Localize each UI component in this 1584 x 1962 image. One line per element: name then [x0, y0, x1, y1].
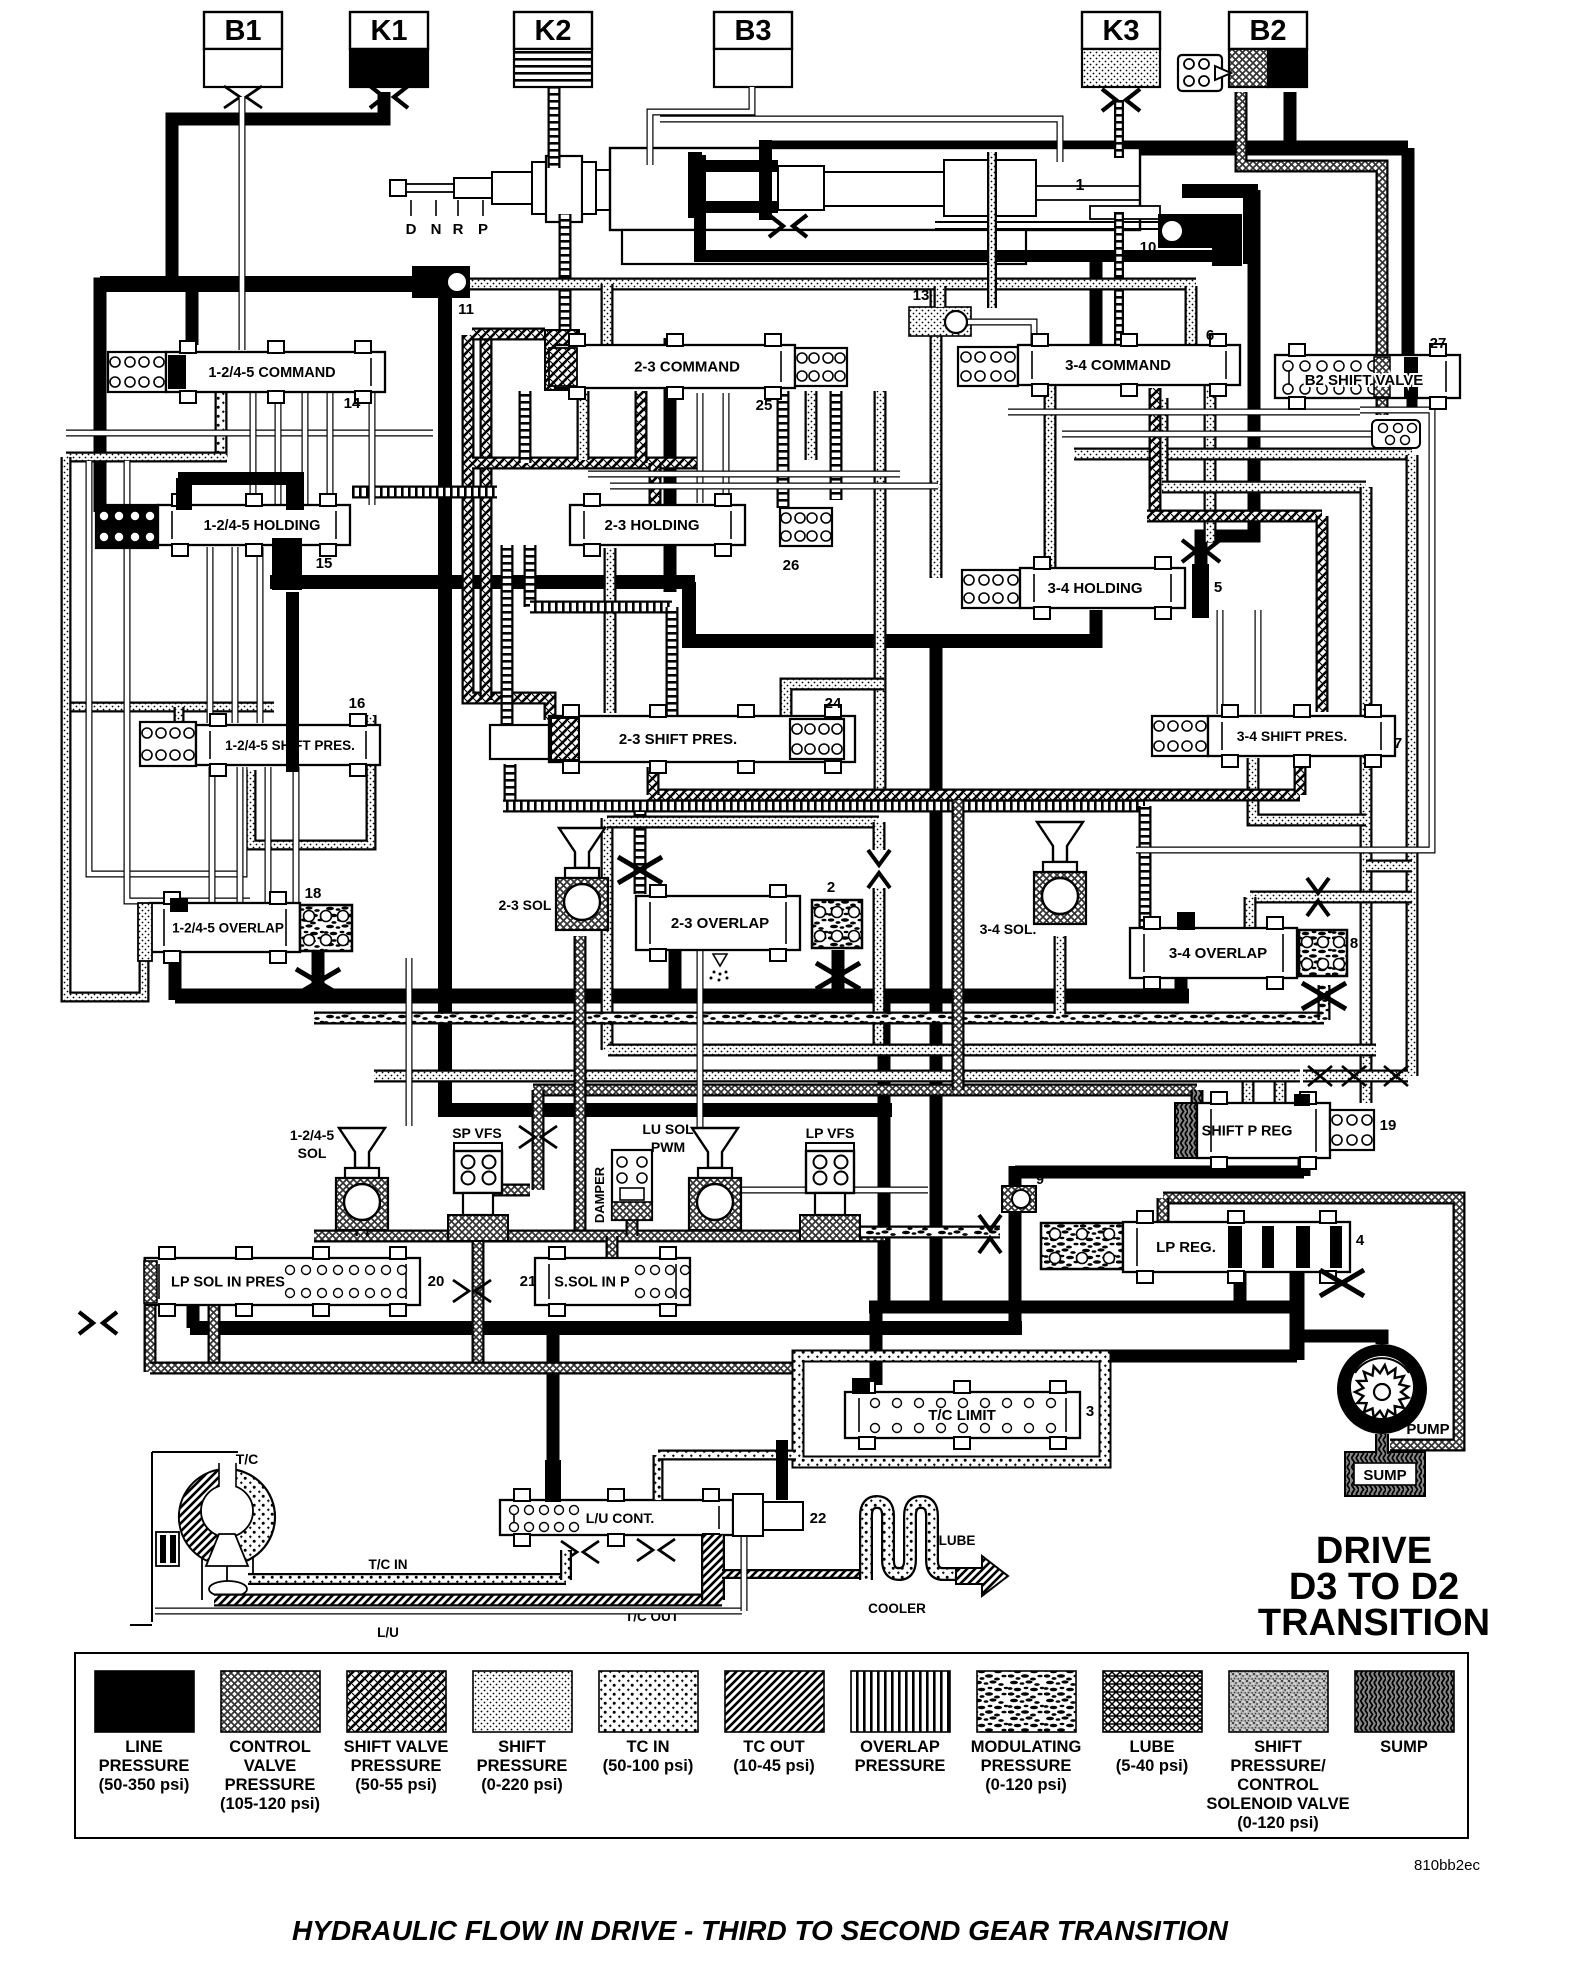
t/c frame — [130, 1452, 238, 1625]
solenoid lu sol pwm — [689, 1128, 741, 1230]
line to l/u cont right — [776, 1440, 788, 1500]
svg-text:(0-120 psi): (0-120 psi) — [1237, 1814, 1319, 1832]
svg-text:6: 6 — [1206, 327, 1214, 344]
svg-text:2-3 COMMAND: 2-3 COMMAND — [634, 359, 740, 376]
svp horizontal — [1147, 510, 1322, 523]
solenoid 1-2/4-5 sol — [336, 1128, 388, 1230]
cvp second leg lp sol — [208, 1260, 221, 1372]
shift pressure run 2 — [374, 1070, 1300, 1083]
svg-text:SHIFT: SHIFT — [498, 1738, 546, 1756]
valve 1-2/4-5 command — [166, 341, 385, 403]
t/c hub seal — [156, 1532, 179, 1566]
t/c out channel — [214, 1594, 722, 1607]
svg-text:VALVE: VALVE — [244, 1757, 297, 1775]
K2 feed lower — [559, 214, 572, 348]
wire holding-shiftpres — [207, 547, 214, 723]
svg-text:SHIFT: SHIFT — [1254, 1738, 1302, 1756]
wire right loop — [1136, 410, 1432, 850]
dotted drop from check valve — [873, 888, 886, 1050]
legend label OVERLAP — [855, 1738, 946, 1775]
B2 shift valve perforations — [1283, 361, 1378, 394]
control pressure dark run — [533, 1084, 1197, 1097]
modulating to 3-4 overlap — [1318, 985, 1331, 1020]
manual valve stem line — [935, 222, 1161, 229]
wire B2 valve row 2 — [1062, 431, 1380, 438]
tab lp sol in pres — [187, 1303, 200, 1328]
svg-text:9: 9 — [1036, 1171, 1044, 1187]
dotted below 3-4 command right — [1204, 385, 1217, 542]
svg-text:(10-45 psi): (10-45 psi) — [733, 1757, 815, 1775]
dotted to V orifice — [873, 822, 886, 850]
spring box 2-3 command — [795, 348, 847, 386]
lp vfs — [800, 1143, 860, 1241]
clutch chamber K3 — [1082, 49, 1160, 87]
pump enclosure channel — [1163, 1198, 1459, 1445]
valve lp sol in pres — [145, 1247, 420, 1316]
lp reg bottom vertical — [1290, 1270, 1305, 1360]
svg-text:HYDRAULIC FLOW IN DRIVE - THIR: HYDRAULIC FLOW IN DRIVE - THIRD TO SECON… — [292, 1915, 1229, 1946]
black tab above 3-4 overlap — [1177, 912, 1195, 930]
lp reg pistons — [1228, 1226, 1342, 1268]
shift pressure run to shift p reg — [608, 1044, 1376, 1057]
sp vfs — [448, 1143, 508, 1241]
cvp through B2 valve — [1374, 357, 1390, 397]
svg-text:15: 15 — [316, 555, 333, 572]
shift pressure header from 11 — [470, 278, 1196, 291]
line pressure top header — [765, 141, 1408, 156]
legend label TC IN — [603, 1738, 694, 1775]
legend label LINE — [99, 1738, 190, 1794]
orifice K2 line — [633, 189, 671, 211]
3-4 command to holding — [1044, 385, 1057, 570]
svg-text:SUMP: SUMP — [1380, 1738, 1428, 1756]
svg-text:B2 SHIFT VALVE: B2 SHIFT VALVE — [1305, 372, 1424, 389]
svp vertical to 3-4 shift pres — [1316, 516, 1329, 712]
valve s sol in p — [535, 1247, 690, 1316]
manual valve spool details — [688, 140, 1160, 220]
svg-text:(5-40 psi): (5-40 psi) — [1116, 1757, 1188, 1775]
pump inlet run — [1297, 1336, 1382, 1344]
orifice l/u cont 1 — [561, 1541, 599, 1563]
wire 2-3 row 1 — [588, 471, 900, 478]
svg-text:7: 7 — [1394, 735, 1402, 752]
dotted below 2-3 command right — [805, 391, 818, 460]
lp sol in pres perforations — [286, 1266, 407, 1298]
stub below B2 shift valve — [1407, 398, 1418, 412]
svg-text:D: D — [406, 221, 417, 238]
wire junction 13 to 3-4 command — [968, 322, 1034, 352]
svg-text:810bb2ec: 810bb2ec — [1414, 1857, 1480, 1874]
cvp vertical mid — [952, 800, 965, 1090]
svg-text:3-4 HOLDING: 3-4 HOLDING — [1047, 580, 1142, 597]
svg-text:LP VFS: LP VFS — [806, 1125, 855, 1141]
dotted into shift p reg — [1303, 1070, 1408, 1083]
svg-text:14: 14 — [344, 395, 361, 412]
sp vfs link — [478, 1160, 530, 1190]
svg-text:(0-220 psi): (0-220 psi) — [481, 1776, 563, 1794]
orifice 2-3 overlap inlet — [618, 857, 662, 883]
valve lp reg — [1123, 1211, 1350, 1283]
lp vfs drop — [824, 1214, 837, 1236]
legend swatch LINE — [95, 1671, 194, 1732]
dotted center vertical — [930, 290, 943, 578]
accumulator 3-4 overlap — [1299, 930, 1347, 976]
line pressure drop to L/U control — [547, 1328, 560, 1508]
svg-text:N: N — [431, 221, 442, 238]
dotted from 3-4 shift pres — [1253, 758, 1366, 820]
tab below 1-2/4-5 overlap — [312, 948, 325, 998]
legend label LUBE — [1116, 1738, 1188, 1775]
svg-text:20: 20 — [428, 1273, 445, 1290]
spring box 2-3 holding — [780, 508, 832, 546]
svg-text:LP SOL IN PRES: LP SOL IN PRES — [171, 1275, 285, 1291]
svg-text:8: 8 — [1350, 935, 1358, 952]
legend label SHIFT — [1206, 1738, 1349, 1832]
legend swatch SHIFT — [1229, 1671, 1328, 1732]
line pressure vertical at lp reg — [1009, 1166, 1022, 1334]
drop to 3-4 command — [1185, 286, 1198, 352]
junction 9 — [1002, 1186, 1036, 1212]
spray nozzle 2-3 overlap — [710, 954, 729, 982]
cvp from 2-3 sol — [574, 936, 587, 1236]
valve 2-3 command — [555, 334, 795, 399]
legend swatch LUBE — [1103, 1671, 1202, 1732]
pump enclosure left leg — [1157, 1198, 1170, 1226]
svg-text:21: 21 — [520, 1273, 537, 1290]
manual valve to junction 13 — [987, 152, 997, 308]
svg-text:PRESSURE: PRESSURE — [981, 1757, 1072, 1775]
dotted stub into shift pres — [174, 707, 185, 727]
valve 3-4 holding — [1020, 557, 1185, 619]
damper drop — [626, 1218, 639, 1236]
svg-text:27: 27 — [1430, 335, 1447, 352]
svg-text:(105-120 psi): (105-120 psi) — [220, 1795, 320, 1813]
ladder right of 2-3 command — [830, 391, 843, 500]
sol drop — [356, 1214, 369, 1236]
orifice between sol valves — [453, 1280, 491, 1302]
line pressure mid run right — [689, 582, 1102, 641]
svg-text:(50-350 psi): (50-350 psi) — [99, 1776, 190, 1794]
legend swatch TC IN — [599, 1671, 698, 1732]
wire 3-4 holding to shift pres — [1217, 610, 1224, 714]
svg-text:B1: B1 — [224, 15, 261, 47]
svg-text:(50-100 psi): (50-100 psi) — [603, 1757, 694, 1775]
lp reg lower run 2 — [1022, 1350, 1297, 1363]
svg-text:1: 1 — [1076, 177, 1085, 194]
legend label MODULATING — [971, 1738, 1082, 1794]
ladder tab below 2-3 shift pres — [504, 764, 517, 806]
clutch label B2 — [1229, 12, 1307, 49]
dotted right of 2-3 holding — [874, 391, 887, 795]
junction 11 — [412, 266, 470, 298]
svg-text:T/C IN: T/C IN — [369, 1557, 408, 1572]
dotted L to 2-3 shift pres — [786, 684, 884, 760]
svp block at 2-3 command — [545, 330, 579, 390]
svg-text:L/U CONT.: L/U CONT. — [586, 1510, 654, 1526]
orifice modulating — [1302, 983, 1346, 1009]
svg-text:LINE: LINE — [125, 1738, 163, 1756]
clutch label K2 — [514, 12, 592, 49]
svg-text:K2: K2 — [534, 15, 571, 47]
wire 3-4 holding to shift pres 2 — [1255, 610, 1262, 714]
valve 1-2/4-5 overlap — [150, 892, 300, 963]
plug item 5 — [1192, 564, 1209, 618]
line pressure drop to t/c limit — [870, 1307, 883, 1385]
svg-text:LP REG.: LP REG. — [1156, 1239, 1216, 1256]
legend label SHIFT — [477, 1738, 568, 1794]
junction 10 — [1158, 184, 1258, 266]
svg-text:R: R — [453, 221, 464, 238]
l/u cont end block 2 — [763, 1502, 803, 1530]
B3 feed line — [650, 87, 752, 165]
wire shiftpres-overlap — [293, 767, 300, 903]
svg-text:3: 3 — [1086, 1403, 1094, 1420]
K3 feed lower — [1114, 212, 1124, 348]
clutch chamber K2 — [514, 49, 592, 87]
svg-text:1-2/4-5: 1-2/4-5 — [290, 1127, 335, 1143]
svg-text:11: 11 — [458, 301, 474, 318]
manual valve U1 body — [390, 148, 1140, 264]
orifice manual valve outlet — [769, 215, 807, 237]
clutch label K1 — [350, 12, 428, 49]
valve shift p reg — [1197, 1092, 1330, 1169]
line pressure from shift p reg — [1015, 1166, 1304, 1179]
solenoid 2-3 sol — [556, 828, 608, 930]
line pressure drop to B2 shift valve — [1402, 148, 1415, 357]
tcin tab below 1-2/4-5 command — [215, 390, 228, 457]
valve 2-3 overlap — [636, 885, 800, 961]
legend swatch SHIFT VALVE — [347, 1671, 446, 1732]
clutch chamber B3 — [714, 49, 792, 87]
dotted row to 3-4 overlap — [1250, 891, 1412, 904]
gear position P — [482, 200, 484, 216]
line pressure drop through shift pres — [286, 592, 299, 772]
svg-text:1-2/4-5 COMMAND: 1-2/4-5 COMMAND — [208, 365, 335, 381]
check at junction 9 — [979, 1215, 1001, 1253]
dotted 2-3 holding to shift pres — [604, 548, 617, 713]
lu sol feed — [697, 950, 704, 1128]
svg-text:3-4 SHIFT PRES.: 3-4 SHIFT PRES. — [1237, 728, 1347, 744]
svg-text:TC OUT: TC OUT — [743, 1738, 804, 1756]
wire 2-3 command-holding — [697, 393, 704, 503]
clutch chamber K1 — [350, 49, 428, 87]
svg-text:P: P — [478, 221, 488, 238]
drop to 2-3 command — [601, 284, 614, 348]
wire shiftpres-overlap — [237, 767, 244, 903]
line pressure mid run left — [270, 575, 695, 589]
svg-text:LU SOL: LU SOL — [642, 1121, 694, 1137]
accumulator 2-3 overlap — [812, 900, 862, 948]
tab below 2-3 overlap accumulator — [832, 950, 845, 996]
valve 3-4 shift pres — [1208, 705, 1395, 767]
svg-text:B3: B3 — [734, 15, 771, 47]
orifice above item 5 — [1182, 540, 1220, 562]
legend label TC OUT — [733, 1738, 815, 1775]
legend swatch CONTROL — [221, 1671, 320, 1732]
l/u rise — [741, 1537, 748, 1611]
svg-text:3-4 COMMAND: 3-4 COMMAND — [1065, 357, 1171, 374]
svg-text:SP VFS: SP VFS — [452, 1125, 502, 1141]
check item below B2 valve — [1372, 420, 1420, 448]
dotted header right lower — [1162, 481, 1366, 494]
svg-text:2: 2 — [827, 879, 835, 896]
valve 1-2/4-5 shift pres — [196, 714, 380, 776]
hub seal bar 2 — [170, 1535, 176, 1563]
svg-text:COOLER: COOLER — [868, 1601, 926, 1616]
svg-text:CONTROL: CONTROL — [229, 1738, 311, 1756]
svg-text:L/U: L/U — [377, 1625, 399, 1640]
s sol perforations — [636, 1266, 690, 1298]
ladder 2-3 command to holding — [777, 391, 790, 508]
tab 1-2/4-5 overlap — [169, 948, 182, 1000]
dotted right vertical outer — [1406, 455, 1419, 1076]
spring box shift p reg — [1330, 1110, 1374, 1150]
svg-text:PWM: PWM — [651, 1139, 685, 1155]
valve 2-3 holding — [570, 494, 745, 556]
K3 feed upper — [1114, 100, 1124, 158]
wire shiftpres-overlap — [209, 767, 216, 903]
legend label SHIFT VALVE — [344, 1738, 449, 1794]
cvp below B2 shift valve — [1376, 398, 1389, 415]
orifice under K1 — [370, 86, 408, 108]
ladder to 2-3 shift pres — [666, 607, 679, 722]
ladder from 2-3 holding — [524, 545, 537, 607]
valve t/c limit — [845, 1381, 1080, 1449]
orifice below lp reg — [1320, 1270, 1364, 1296]
svg-text:25: 25 — [756, 397, 773, 414]
svp cap 2-3 shift pres — [551, 718, 579, 760]
t/c out elbow to l/u cont — [701, 1535, 725, 1600]
dotted from 3-4 sol — [1054, 936, 1067, 1014]
B2 feed check valve — [1178, 55, 1231, 91]
spring box 1-2/4-5 shift pres — [140, 722, 196, 766]
wire command-holding — [302, 392, 309, 505]
line pressure long vertical to lower run — [445, 292, 892, 1110]
pump — [1337, 1344, 1427, 1434]
dotted left header — [66, 452, 227, 463]
svp drop from 2-3 command — [635, 391, 648, 463]
svp horizontal below 2-3 command — [472, 457, 700, 470]
legend swatch OVERLAP — [851, 1671, 950, 1732]
clutch label B3 — [714, 12, 792, 49]
l/u cont perforations — [510, 1506, 579, 1532]
orifice l/u cont 2 — [637, 1539, 675, 1561]
B2 control valve pressure line — [1241, 92, 1382, 357]
svg-text:2-3 OVERLAP: 2-3 OVERLAP — [671, 915, 769, 932]
valve 3-4 command — [1018, 334, 1240, 396]
orifice below 2-3 overlap accumulator — [816, 963, 860, 989]
ladder 2-3 holding to shift pres straight — [501, 545, 514, 760]
svp elbow up to 3-4 shift pres — [1294, 758, 1307, 795]
t/c limit surround channel — [798, 1356, 1105, 1462]
t/c in channel — [248, 1573, 566, 1585]
t/c limit inlet tab — [852, 1378, 870, 1394]
svg-text:1-2/4-5 OVERLAP: 1-2/4-5 OVERLAP — [172, 921, 284, 936]
t/c limit perforations — [871, 1399, 1056, 1433]
svg-text:SHIFT VALVE: SHIFT VALVE — [344, 1738, 449, 1756]
wire command-holding — [275, 392, 282, 505]
ladder jog horizontal — [530, 601, 672, 614]
orifice under K3 — [1102, 89, 1140, 111]
ladder drop to 2-3 overlap — [634, 812, 647, 894]
drop to junction 13 — [934, 286, 947, 307]
svp long horizontal — [647, 789, 1300, 802]
thin left wire 1 — [89, 461, 244, 874]
svg-text:LUBE: LUBE — [939, 1533, 976, 1548]
legend label SUMP — [1380, 1738, 1428, 1756]
svg-text:TRANSITION: TRANSITION — [1258, 1602, 1490, 1644]
svg-text:PRESSURE: PRESSURE — [225, 1776, 316, 1794]
svg-text:SHIFT P REG: SHIFT P REG — [1202, 1124, 1293, 1140]
wire command-holding right — [369, 392, 376, 505]
black tab above 1-2/4-5 overlap — [170, 898, 188, 912]
svg-text:5: 5 — [1214, 579, 1222, 596]
gear position N — [435, 200, 437, 216]
check valve 2-3 overlap — [868, 850, 890, 888]
svg-text:S.SOL IN P: S.SOL IN P — [554, 1275, 630, 1291]
svg-text:PRESSURE: PRESSURE — [855, 1757, 946, 1775]
spring box 1-2/4-5 holding — [96, 505, 158, 548]
ladder below 2-3 command left — [519, 391, 532, 463]
svg-text:4: 4 — [1356, 1232, 1365, 1249]
damper — [612, 1150, 652, 1220]
accumulator 1-2/4-5 overlap — [300, 905, 352, 951]
orifice under B1 — [224, 86, 262, 108]
stub into shift p reg 1 — [1242, 1076, 1255, 1104]
lube arrow — [956, 1556, 1008, 1596]
sp vfs drop — [472, 1214, 485, 1372]
svg-text:SOLENOID VALVE: SOLENOID VALVE — [1206, 1795, 1349, 1813]
tab shift p reg — [1294, 1094, 1310, 1106]
svg-text:2-3 SOL: 2-3 SOL — [499, 897, 552, 913]
svg-text:24: 24 — [825, 695, 842, 712]
line pressure drop to 3-4 command — [1090, 256, 1103, 352]
clutch label B1 — [204, 12, 282, 49]
orifice shift p reg inlet — [1308, 1066, 1332, 1086]
svg-text:CONTROL: CONTROL — [1237, 1776, 1319, 1794]
wire holding-shiftpres — [232, 547, 239, 723]
clutch chamber B2 — [1229, 49, 1268, 87]
orifice right vertical — [1384, 1066, 1408, 1086]
svp top stub — [472, 328, 545, 341]
l/u cont top feed — [653, 1455, 664, 1500]
dotted right vertical inner — [1360, 487, 1373, 1103]
svg-text:DAMPER: DAMPER — [592, 1166, 607, 1223]
l/u cont end block 1 — [733, 1494, 763, 1536]
line pressure from B2 chamber — [1284, 92, 1297, 150]
svg-text:B2: B2 — [1249, 15, 1286, 47]
t/c limit to l/u cont channel — [658, 1450, 796, 1461]
svp drop to 2-3 holding — [649, 463, 662, 505]
wire holding-shiftpres — [257, 547, 264, 723]
K2 feed upper — [548, 88, 561, 168]
svg-text:10: 10 — [1140, 239, 1157, 256]
B3 feed line branch — [660, 119, 1060, 162]
t/c in rise — [560, 1550, 572, 1580]
wire command-holding — [327, 392, 334, 505]
cvp drop to sp vfs orifice — [532, 1090, 545, 1190]
line pressure drop to 1-2/4-5 command — [186, 292, 199, 345]
line pressure drop to t/c limit feed — [878, 996, 891, 1307]
cooler — [866, 1502, 958, 1580]
svg-text:OVERLAP: OVERLAP — [860, 1738, 940, 1756]
tab below shift p reg — [1298, 1145, 1311, 1176]
spring box 3-4 shift pres — [1152, 716, 1208, 756]
dotted header right upper — [1074, 448, 1412, 461]
svg-text:16: 16 — [349, 695, 366, 712]
clutch label K3 — [1082, 12, 1160, 49]
legend swatch SUMP — [1355, 1671, 1454, 1732]
